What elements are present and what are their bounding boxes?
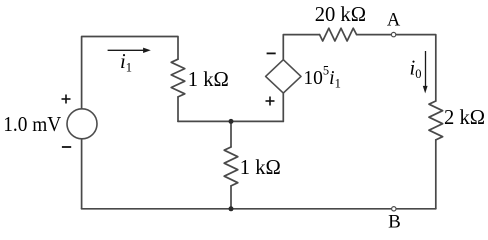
- current arrow i1: [108, 48, 151, 53]
- wire: middle horizontal: [178, 120, 283, 122]
- minus mark of source: [62, 146, 71, 148]
- resistor 1 kOhm (middle) zigzag: [224, 147, 238, 186]
- wire: bottom horizontal: [82, 208, 436, 210]
- svg-text:B: B: [388, 211, 401, 232]
- svg-text:1.0 mV: 1.0 mV: [3, 114, 61, 136]
- wire: left vertical + top-left horizontal + 1k left top lead: [82, 37, 178, 109]
- wire: diamond top lead + top-right horizontal to 20k: [283, 35, 319, 60]
- wire: 1 kOhm left bottom lead: [177, 97, 179, 122]
- voltage source VS 1.0 mV circle: [67, 109, 97, 139]
- node A circle: [391, 32, 395, 36]
- wire: 1 kOhm middle bottom lead: [230, 186, 232, 209]
- junction dot bottom wire: [229, 206, 234, 211]
- wire: 20k to top-right corner + right vertical to 2k: [357, 35, 436, 101]
- minus mark of dependent source: [267, 52, 276, 54]
- wire: diamond bottom lead: [282, 93, 284, 121]
- current arrow i0: [423, 51, 428, 93]
- wire: voltage source bottom to bottom-left corner: [81, 139, 83, 209]
- svg-text:1 kΩ: 1 kΩ: [188, 69, 229, 91]
- junction dot middle wire: [229, 119, 234, 124]
- plus mark of dependent source: [266, 97, 275, 106]
- resistor 1 kOhm (left) zigzag: [171, 59, 185, 97]
- svg-text:1 kΩ: 1 kΩ: [240, 157, 281, 179]
- plus mark of source: [62, 95, 71, 104]
- dependent source diamond 10^5 i1: [266, 60, 301, 93]
- svg-text:20 kΩ: 20 kΩ: [315, 4, 366, 26]
- svg-text:A: A: [387, 11, 401, 31]
- resistor 20 kOhm zigzag: [320, 28, 357, 41]
- svg-text:2 kΩ: 2 kΩ: [444, 107, 485, 129]
- wire: 2 kOhm bottom lead: [435, 140, 437, 209]
- wire: middle junction down to 1 kOhm middle: [230, 121, 232, 147]
- resistor 2 kOhm zigzag: [429, 101, 443, 140]
- node B circle: [392, 207, 396, 211]
